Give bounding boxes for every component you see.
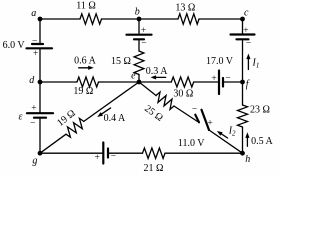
- svg-text:c: c: [244, 8, 249, 19]
- node c: [240, 8, 249, 22]
- resistor 23 ohm (f-h): [238, 105, 248, 127]
- battery (g-h): [103, 143, 108, 164]
- svg-text:+: +: [141, 26, 146, 36]
- resistor 25 ohm diagonal (e-h): [156, 92, 174, 109]
- svg-text:I1: I1: [252, 58, 260, 70]
- wire 6.0V to d: [39, 48, 41, 82]
- svg-text:15 Ω: 15 Ω: [111, 56, 131, 67]
- svg-text:+: +: [243, 26, 248, 36]
- wire battery to f: [223, 81, 243, 83]
- node a: [31, 8, 42, 21]
- wire e to R30: [139, 81, 171, 83]
- svg-text:−: −: [141, 39, 146, 49]
- svg-text:b: b: [135, 7, 140, 18]
- wire battery to R15: [138, 39, 140, 51]
- wire d to battery eps: [39, 82, 41, 113]
- current arrow 0.4 A: [101, 108, 111, 115]
- wire R11 to b: [102, 18, 140, 20]
- svg-text:11 Ω: 11 Ω: [76, 1, 96, 12]
- current arrow 0.6 A: [79, 67, 90, 69]
- wire R30 to battery 17.0V: [194, 81, 219, 83]
- wire d to R19: [40, 81, 77, 83]
- node d: [29, 75, 42, 86]
- wire battery to h: [209, 130, 243, 153]
- svg-text:23 Ω: 23 Ω: [250, 104, 270, 115]
- svg-text:g: g: [32, 156, 37, 167]
- svg-text:h: h: [245, 154, 250, 165]
- resistor 19 ohm diagonal (g-e): [66, 118, 84, 137]
- svg-text:I2: I2: [228, 126, 236, 138]
- wire diag R19 to e: [84, 82, 139, 121]
- node h: [240, 151, 250, 165]
- battery 17.0V (e-f): [219, 71, 223, 95]
- svg-text:+: +: [207, 119, 212, 129]
- battery 6.0V (a-d): [27, 44, 53, 48]
- node b: [135, 7, 142, 22]
- wire f to R23: [242, 82, 244, 105]
- battery (c-f): [231, 35, 255, 40]
- svg-text:0.4 A: 0.4 A: [104, 113, 126, 124]
- resistor 30 ohm (e-f): [171, 77, 193, 87]
- resistor 15 ohm (b-e): [134, 51, 144, 75]
- node g: [32, 151, 42, 167]
- battery (b branch): [127, 35, 152, 40]
- wire a to battery 6.0V: [39, 19, 41, 44]
- svg-text:30 Ω: 30 Ω: [173, 88, 193, 99]
- wire g to diag R19: [40, 134, 66, 153]
- svg-text:0.6 A: 0.6 A: [74, 56, 96, 67]
- svg-text:−: −: [246, 39, 251, 49]
- node e: [131, 71, 141, 85]
- wire g to battery: [40, 152, 103, 154]
- wire b to R13: [139, 18, 178, 20]
- current arrow I1: [247, 58, 249, 70]
- svg-text:17.0 V: 17.0 V: [206, 56, 234, 67]
- svg-text:d: d: [29, 75, 35, 86]
- svg-text:21 Ω: 21 Ω: [144, 163, 164, 174]
- resistor 11 ohm (a-b): [80, 14, 102, 24]
- wire b to battery: [138, 19, 140, 35]
- current arrow 0.5 A: [246, 136, 248, 146]
- wire R23 to h: [242, 127, 244, 153]
- svg-text:0.5 A: 0.5 A: [251, 136, 273, 147]
- wire eps to g: [39, 118, 41, 154]
- svg-text:f: f: [246, 79, 250, 90]
- svg-text:−: −: [192, 105, 197, 115]
- wire battery to f: [242, 39, 244, 82]
- wire R21 to h: [165, 152, 243, 154]
- wire a to R11: [40, 18, 80, 20]
- svg-text:a: a: [31, 8, 36, 19]
- wire R19 to e: [99, 81, 140, 83]
- svg-text:+: +: [33, 49, 38, 59]
- svg-text:+: +: [211, 74, 216, 84]
- svg-text:25 Ω: 25 Ω: [142, 103, 165, 124]
- svg-text:e: e: [131, 71, 136, 82]
- wire c to battery: [242, 19, 244, 35]
- node f: [240, 79, 250, 90]
- resistor 21 ohm (g-h): [143, 148, 166, 158]
- current arrow I2: [220, 133, 227, 138]
- wire battery to R21: [108, 152, 143, 154]
- wire R15 to e: [138, 75, 140, 83]
- svg-text:11.0 V: 11.0 V: [178, 138, 205, 149]
- svg-text:−: −: [32, 36, 37, 46]
- svg-text:ε: ε: [19, 112, 23, 123]
- battery 11.0V (e-h diagonal): [195, 110, 209, 130]
- svg-text:6.0 V: 6.0 V: [3, 40, 26, 51]
- wire R13 to c: [199, 18, 243, 20]
- svg-text:19 Ω: 19 Ω: [73, 86, 93, 97]
- svg-text:13 Ω: 13 Ω: [175, 2, 195, 13]
- svg-text:0.3 A: 0.3 A: [146, 66, 168, 77]
- current arrow 0.3 A: [155, 76, 166, 78]
- wire diag R25 to battery 11.0V: [174, 106, 198, 122]
- resistor 19 ohm (d-e): [77, 77, 99, 87]
- wire e to diag R25: [139, 82, 156, 96]
- svg-text:+: +: [95, 153, 100, 163]
- svg-text:−: −: [30, 119, 35, 129]
- svg-text:+: +: [31, 104, 36, 114]
- battery eps (d-g): [27, 113, 53, 118]
- resistor 13 ohm (b-c): [178, 14, 199, 24]
